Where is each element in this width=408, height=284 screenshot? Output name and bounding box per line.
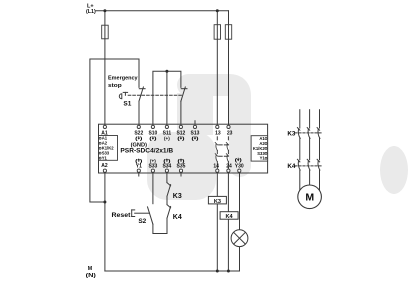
svg-text:Y1: Y1 [260,156,266,161]
svg-text:K4: K4 [287,163,296,170]
svg-text:stop: stop [108,83,122,89]
svg-text:S35: S35 [177,163,186,169]
svg-text:(N): (N) [86,273,97,279]
svg-text:23: 23 [227,131,233,137]
svg-text:PSR-SDC4/2x1/B: PSR-SDC4/2x1/B [120,148,174,154]
svg-text:13: 13 [215,131,221,137]
svg-text:K4: K4 [226,214,234,220]
svg-text:A2: A2 [101,163,108,169]
svg-text:14: 14 [213,163,219,169]
svg-text:Y1: Y1 [136,163,142,169]
svg-text:Y30: Y30 [235,163,244,169]
svg-text:S34: S34 [162,163,171,169]
svg-text:S1: S1 [123,101,131,108]
svg-text:M: M [88,266,93,272]
svg-text:M: M [305,192,314,204]
svg-text:(L1): (L1) [86,9,96,15]
svg-text:K3: K3 [173,193,182,200]
svg-text:(+): (+) [164,136,170,141]
svg-text:K4: K4 [173,214,182,221]
svg-text:Emergency: Emergency [108,75,138,81]
svg-text:S2: S2 [138,218,146,225]
svg-text:A1: A1 [101,130,108,136]
svg-text:K3: K3 [287,130,296,137]
svg-text:Y1: Y1 [102,156,108,161]
svg-text:24: 24 [226,163,232,169]
svg-text:S33: S33 [148,163,157,169]
svg-text:K3: K3 [214,199,221,205]
svg-text:Reset: Reset [112,212,132,219]
